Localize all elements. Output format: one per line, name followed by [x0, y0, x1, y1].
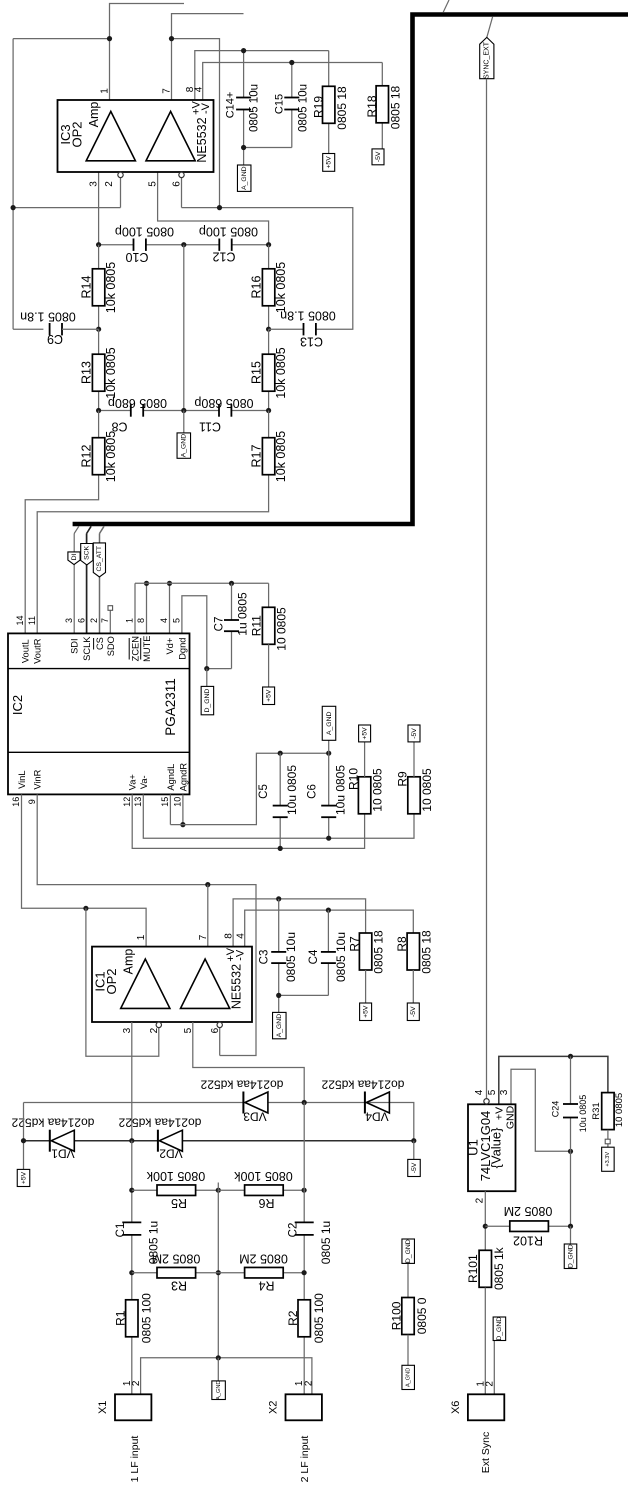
label C3	[259, 950, 271, 965]
wire R31 bottom stub	[607, 1130, 609, 1147]
junction square R31	[605, 1139, 610, 1144]
svg-text:2: 2	[131, 1380, 142, 1386]
label R10 value	[371, 768, 385, 812]
svg-text:A_GND: A_GND	[276, 1014, 283, 1038]
node junction C4 top	[326, 908, 331, 913]
wire MUTE	[146, 583, 148, 633]
wire R6 line	[218, 1189, 304, 1191]
label C15	[274, 94, 286, 114]
svg-text:MUTE: MUTE	[142, 636, 152, 662]
power +5V flag R10	[359, 725, 371, 742]
label R2	[286, 1310, 300, 1326]
capacitor C9	[50, 323, 99, 335]
ground D_GND (x6)	[493, 1317, 506, 1341]
svg-text:13: 13	[133, 797, 143, 807]
wire IC3 pin3	[98, 172, 100, 245]
power -5V flag R18	[372, 149, 384, 165]
label R15	[250, 361, 264, 384]
pin 1 IC1	[136, 934, 147, 940]
svg-text:9: 9	[27, 799, 37, 804]
node junction pin7	[169, 36, 174, 41]
svg-text:C1: C1	[115, 1223, 127, 1238]
net label CS_ATT	[93, 543, 105, 577]
wire AgndL	[169, 794, 171, 824]
wire 680p net left	[99, 410, 184, 412]
svg-text:R15: R15	[250, 361, 264, 384]
node junction 680p right	[266, 408, 271, 413]
svg-text:0805 100p: 0805 100p	[115, 225, 174, 239]
label IC1	[92, 971, 107, 991]
svg-text:10 0805: 10 0805	[614, 1093, 625, 1127]
label R16	[250, 275, 264, 298]
svg-text:GND: GND	[505, 1105, 517, 1129]
ground D_GND (right)	[564, 1244, 577, 1269]
wire DI bus entry	[74, 526, 79, 633]
wire IC1 pin7	[207, 885, 209, 947]
label Ext Sync	[480, 1432, 492, 1473]
svg-text:0805 1.8n: 0805 1.8n	[280, 309, 336, 323]
resistor R12	[92, 438, 104, 475]
svg-text:5: 5	[148, 181, 159, 187]
svg-text:Ext Sync: Ext Sync	[480, 1432, 492, 1473]
node junction C24 top	[568, 1054, 573, 1059]
svg-text:7: 7	[198, 934, 209, 940]
label R16 value	[274, 262, 288, 313]
label C5	[258, 784, 270, 799]
svg-text:2: 2	[89, 618, 99, 623]
svg-text:10 0805: 10 0805	[371, 768, 385, 812]
wire C5 column	[279, 753, 281, 848]
wire IC1 pin6 stub	[219, 1028, 221, 1056]
label IC2	[10, 695, 25, 715]
label R1 value	[139, 1293, 153, 1343]
svg-text:A_GND: A_GND	[216, 1381, 222, 1400]
diode VD1	[50, 1130, 75, 1152]
label VD4	[365, 1110, 389, 1124]
node junction R4 right	[302, 1270, 307, 1275]
svg-text:R102: R102	[513, 1234, 543, 1248]
resistor R2	[298, 1300, 310, 1337]
label C15 value	[298, 84, 310, 132]
overline ZCEN	[128, 638, 130, 660]
diode VD3	[243, 1092, 268, 1114]
wire R5 line	[132, 1189, 219, 1191]
label IC1 Amp	[122, 949, 136, 975]
svg-text:SDO: SDO	[106, 636, 116, 656]
pin 8 IC1	[224, 933, 235, 939]
label C4 value	[334, 932, 348, 982]
resistor R31	[602, 1093, 614, 1130]
label C24 value	[578, 1095, 588, 1133]
svg-text:R14: R14	[80, 275, 94, 298]
resistor R100	[402, 1298, 414, 1335]
overline MUTE	[140, 638, 142, 660]
svg-text:Va-: Va-	[139, 775, 149, 789]
svg-text:X2: X2	[268, 1401, 280, 1414]
svg-text:C7: C7	[214, 617, 226, 632]
resistor R18	[376, 86, 388, 123]
label R1	[114, 1310, 128, 1326]
node junction C14 top on +V	[241, 48, 246, 53]
resistor R102	[510, 1221, 549, 1232]
wire C7 column	[231, 583, 233, 668]
svg-text:3: 3	[89, 181, 100, 187]
wire R8 bottom stub	[412, 970, 414, 1003]
label C12 value	[199, 225, 258, 239]
label R19 value	[335, 86, 349, 130]
node junction C5 bottom	[278, 846, 283, 851]
svg-text:OP2: OP2	[69, 121, 84, 147]
pin 1 IC3	[100, 88, 111, 94]
label IC1 OP2	[104, 968, 119, 994]
ground D_GND flag R100	[402, 1239, 415, 1263]
svg-text:6: 6	[76, 618, 86, 623]
svg-text:R8: R8	[395, 936, 409, 952]
svg-text:C14+: C14+	[225, 92, 237, 119]
label R18 value	[389, 85, 403, 129]
svg-text:R4: R4	[258, 1279, 274, 1293]
resistor R7	[359, 933, 371, 970]
svg-text:2 LF input: 2 LF input	[299, 1436, 311, 1483]
wire pin1 net of IC3 (OUT1)	[13, 4, 184, 330]
node junction R3 R4 spine	[216, 1270, 221, 1275]
svg-text:0805 18: 0805 18	[389, 85, 403, 129]
label C2 value	[319, 1221, 333, 1264]
label U1 GND	[505, 1105, 517, 1129]
svg-text:4: 4	[236, 933, 247, 939]
svg-text:R1: R1	[114, 1310, 128, 1326]
label R7	[348, 936, 362, 952]
wire AgndR	[182, 794, 184, 824]
wire A_GND net of C14 C15	[244, 148, 292, 166]
power +3.3V flag	[602, 1147, 615, 1171]
wire C3 column	[278, 899, 280, 996]
op-amp IC3 triangle A	[86, 111, 135, 160]
svg-text:1 LF input: 1 LF input	[129, 1436, 141, 1483]
node junction M right	[266, 327, 271, 332]
wire R100 top stub	[407, 1263, 409, 1297]
svg-text:C6: C6	[306, 784, 318, 799]
label IC3	[58, 124, 73, 144]
op-amp IC1 box	[92, 947, 252, 1022]
svg-text:C11: C11	[199, 420, 221, 434]
pin 6 IC3	[172, 181, 183, 187]
wire R3 line	[132, 1272, 219, 1274]
node junction rails join	[411, 1138, 416, 1143]
wire SCK bus entry	[87, 526, 92, 633]
svg-text:Dgnd: Dgnd	[177, 638, 187, 660]
label C10 value	[115, 225, 174, 239]
ground A_GND (top)	[237, 165, 251, 191]
label VD2	[159, 1147, 183, 1161]
capacitor C24	[563, 1104, 578, 1118]
svg-text:D_GND: D_GND	[567, 1244, 574, 1268]
label C14	[225, 92, 237, 119]
svg-text:VD3: VD3	[243, 1110, 267, 1124]
wire IC1 pin2 bracket	[86, 908, 159, 1056]
svg-text:X6: X6	[450, 1401, 462, 1414]
svg-text:0805 680p: 0805 680p	[108, 396, 167, 410]
resistor R4	[245, 1267, 284, 1278]
wire ZCEN	[134, 583, 136, 633]
svg-text:R19: R19	[312, 96, 326, 118]
svg-text:CS: CS	[95, 637, 105, 650]
svg-text:R17: R17	[250, 444, 264, 467]
label R11	[250, 615, 264, 636]
svg-text:C13: C13	[300, 335, 323, 349]
resistor R3	[157, 1267, 196, 1278]
wire C3 C4 ground net	[279, 995, 329, 1012]
label R8	[395, 936, 409, 952]
wire U1 pin2 to R101	[484, 1191, 486, 1250]
ground A_GND (filter)	[177, 433, 191, 458]
label PGA2311	[163, 678, 178, 736]
svg-text:C9: C9	[47, 332, 63, 346]
svg-text:2: 2	[149, 1027, 160, 1033]
wire CS_ATT bus entry	[100, 526, 105, 633]
pin 5 IC3	[148, 181, 159, 187]
wire R19 stubs	[328, 51, 330, 154]
pin 2 X1	[131, 1380, 142, 1386]
wire ground spine	[217, 1183, 219, 1358]
label VD2 value	[118, 1116, 201, 1130]
label R3 value	[152, 1252, 201, 1266]
label C9	[47, 332, 63, 346]
label U1 +V	[494, 1107, 506, 1120]
wire R100 bottom stub	[407, 1335, 409, 1366]
label R10	[347, 768, 361, 790]
label VD4 value	[321, 1078, 404, 1092]
node junction pin3 node	[96, 242, 101, 247]
pin 2 U1	[474, 1197, 485, 1203]
svg-text:VD1: VD1	[51, 1147, 75, 1161]
wire R9 top stub	[413, 742, 415, 777]
node junction C24 bottom	[568, 1149, 573, 1154]
svg-text:C12: C12	[212, 250, 235, 264]
pin 3 IC3	[89, 181, 100, 187]
resistor R14	[92, 269, 104, 306]
svg-text:0805 18: 0805 18	[419, 930, 433, 974]
node junction C7 top	[229, 581, 234, 586]
node junction spine R5R6	[216, 1188, 221, 1193]
label R17 value	[274, 431, 288, 482]
wire SDO stub	[109, 610, 111, 633]
connector X6 box	[468, 1394, 504, 1420]
node junction S2	[302, 1100, 307, 1105]
capacitor C4	[321, 952, 336, 963]
pin names PGA bottom	[11, 763, 188, 807]
svg-text:11: 11	[27, 616, 37, 625]
wire AGND route	[170, 753, 328, 824]
svg-text:1: 1	[125, 618, 135, 623]
svg-text:R101: R101	[466, 1254, 480, 1283]
svg-text:R2: R2	[286, 1310, 300, 1326]
pin 5 IC1	[183, 1027, 194, 1033]
node junction C3 bottom	[276, 993, 281, 998]
pin 4 IC3	[194, 86, 205, 92]
node junction AGND flag	[326, 751, 331, 756]
label C1 value	[147, 1221, 161, 1264]
svg-text:0805 1u: 0805 1u	[319, 1221, 333, 1264]
svg-text:10k 0805: 10k 0805	[274, 347, 288, 398]
pin 1 X2	[294, 1380, 305, 1386]
svg-text:0805 100k: 0805 100k	[234, 1169, 293, 1183]
wire C6 column	[328, 753, 330, 838]
bus thick line	[73, 15, 628, 525]
capacitor C1	[122, 1222, 141, 1235]
svg-text:C15: C15	[274, 94, 286, 114]
op-amp IC3 triangle B	[146, 111, 195, 160]
label IC1 NE5532	[230, 964, 244, 1009]
op-amp IC1 triangle A	[121, 959, 170, 1008]
power -5V flag R8	[407, 1003, 419, 1021]
pin 2 IC1 inverting circle	[156, 1022, 161, 1027]
svg-text:3: 3	[499, 1089, 510, 1095]
svg-text:SCLK: SCLK	[82, 636, 92, 661]
pin 2 IC1	[149, 1027, 160, 1033]
net label SCK	[81, 544, 93, 565]
ground A_GND (pga)	[322, 706, 336, 740]
svg-text:4: 4	[159, 618, 169, 623]
label 1 LF input	[129, 1436, 141, 1483]
node junction 680p center	[181, 408, 186, 413]
wire R102 line	[485, 1225, 570, 1227]
svg-text:6: 6	[172, 181, 183, 187]
ground A_GND (ic1)	[273, 1012, 287, 1038]
svg-text:R16: R16	[250, 275, 264, 298]
label C11 value	[194, 396, 253, 410]
label C7	[214, 617, 226, 632]
svg-text:Amp: Amp	[87, 102, 101, 128]
label R6 value	[234, 1169, 293, 1183]
pin 2 IC3	[104, 181, 115, 187]
svg-text:2: 2	[303, 1380, 314, 1386]
svg-text:Va+: Va+	[128, 774, 138, 790]
label C12	[212, 250, 235, 264]
svg-text:R9: R9	[395, 771, 409, 787]
label IC3 +V	[191, 100, 203, 114]
capacitor C13	[269, 323, 316, 335]
resistor R16	[262, 269, 274, 306]
pin 6 IC1	[210, 1027, 221, 1033]
svg-text:C5: C5	[258, 784, 270, 799]
connector X1 box	[115, 1394, 151, 1420]
svg-text:PGA2311: PGA2311	[163, 678, 178, 736]
wire R13 stubs	[98, 329, 100, 410]
svg-text:10 0805: 10 0805	[275, 607, 289, 651]
node junction R3 left	[129, 1270, 134, 1275]
op-amp IC3 box	[58, 100, 214, 172]
wire VinR to OUT2 net	[37, 794, 256, 1055]
svg-text:0805 680p: 0805 680p	[194, 396, 253, 410]
svg-text:A_GND: A_GND	[406, 1368, 412, 1387]
label R5 value	[146, 1169, 205, 1183]
SDO nc square	[108, 606, 113, 611]
svg-text:R12: R12	[80, 444, 94, 467]
label X6	[450, 1401, 462, 1414]
label X1	[97, 1401, 109, 1414]
label C13	[300, 335, 323, 349]
svg-text:-5V: -5V	[410, 1006, 417, 1017]
label R4 value	[239, 1252, 288, 1266]
label C1	[115, 1223, 127, 1238]
wire -5V stub rails	[413, 1141, 415, 1160]
svg-text:0805 100p: 0805 100p	[199, 225, 258, 239]
node junction pin5 node	[266, 242, 271, 247]
svg-text:C24: C24	[551, 1101, 561, 1118]
svg-text:A_GND: A_GND	[326, 712, 333, 736]
label R14	[80, 275, 94, 298]
label C8	[111, 420, 127, 434]
wire R11 bottom stub	[268, 644, 270, 687]
wire channel1 column	[131, 1141, 133, 1395]
svg-text:R18: R18	[365, 95, 379, 117]
label C14 value	[249, 84, 261, 132]
resistor R15	[262, 354, 274, 391]
svg-text:2: 2	[474, 1197, 485, 1203]
wire Va+ net	[132, 794, 364, 848]
svg-text:7: 7	[100, 618, 110, 623]
svg-text:+3.3V: +3.3V	[605, 1152, 611, 1167]
label R18	[365, 95, 379, 117]
label R2 value	[312, 1293, 326, 1343]
capacitor C2	[295, 1222, 314, 1235]
label R101	[466, 1254, 480, 1283]
label R17	[250, 444, 264, 467]
wire SYNC_EXT bus entry	[487, 17, 493, 38]
svg-text:10: 10	[173, 797, 183, 807]
node junction 680p left	[96, 408, 101, 413]
node junction Vd+	[167, 581, 172, 586]
svg-text:10k 0805: 10k 0805	[274, 262, 288, 313]
ground A_GND flag R100	[402, 1365, 415, 1389]
wire pin7 net of IC3 (OUT2)	[172, 14, 244, 208]
power -5V flag rails	[408, 1159, 421, 1176]
resistor R17	[262, 438, 274, 475]
svg-text:do214aa kd522: do214aa kd522	[200, 1078, 283, 1092]
net label SYNC_EXT	[480, 37, 494, 79]
svg-text:0805 1.8n: 0805 1.8n	[20, 310, 76, 324]
svg-text:A_GND: A_GND	[241, 166, 248, 190]
svg-text:+5V: +5V	[265, 689, 272, 702]
svg-text:16: 16	[11, 797, 21, 807]
connector X2 box	[286, 1394, 322, 1420]
label R4	[258, 1279, 274, 1293]
wire C10 net	[99, 244, 184, 246]
wire A_GND stub inputs	[217, 1358, 219, 1381]
svg-text:D_GND: D_GND	[405, 1239, 412, 1263]
pin 7 IC1	[198, 934, 209, 940]
label R8 value	[419, 930, 433, 974]
svg-text:VD4: VD4	[365, 1110, 389, 1124]
label VD3	[243, 1110, 267, 1124]
svg-text:4: 4	[474, 1089, 485, 1095]
label C6	[306, 784, 318, 799]
svg-text:R5: R5	[171, 1196, 187, 1210]
label U1 74LVC1G04	[478, 1111, 493, 1182]
node junction pin6-pin7	[217, 205, 222, 210]
label Amp	[87, 102, 101, 128]
label R102 value	[504, 1204, 553, 1218]
svg-text:R3: R3	[171, 1279, 187, 1293]
wire R4 line	[218, 1272, 304, 1274]
svg-text:0805 100k: 0805 100k	[146, 1169, 205, 1183]
label OP2	[69, 121, 84, 147]
label R31 value	[614, 1093, 625, 1127]
label R6	[258, 1196, 274, 1210]
svg-text:+5V: +5V	[20, 1171, 27, 1184]
label R9 value	[420, 768, 434, 812]
